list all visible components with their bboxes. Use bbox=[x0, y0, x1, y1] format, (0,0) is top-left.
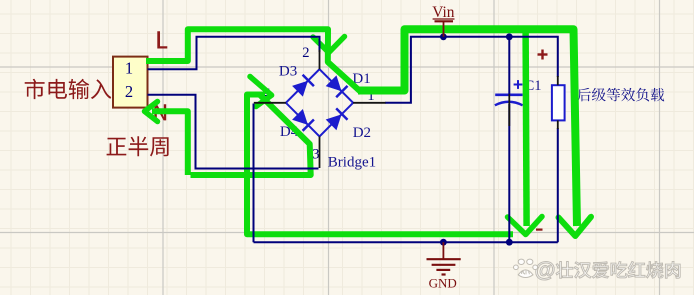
junction dot cap bottom bbox=[506, 239, 513, 246]
minus mark load bbox=[536, 229, 543, 231]
bridge pin 3 stub bbox=[319, 136, 321, 168]
arrow down right branch bbox=[559, 217, 592, 236]
junction dot Vin bbox=[440, 33, 447, 40]
bridge pin 4 stub bbox=[254, 102, 286, 104]
label mains input chinese bbox=[25, 79, 112, 99]
svg-text:GND: GND bbox=[429, 275, 457, 290]
label positive half cycle chinese bbox=[107, 136, 169, 156]
svg-text:@: @ bbox=[535, 258, 556, 282]
bridge pin 2 stub bbox=[319, 50, 321, 69]
load pin stubs bbox=[557, 76, 559, 85]
capacitor body lead bbox=[508, 94, 510, 126]
svg-text:1: 1 bbox=[125, 58, 133, 77]
diode D1 bbox=[325, 75, 348, 98]
wire: capacitor bottom lead bbox=[508, 104, 510, 242]
bridge Bridge1 diamond bbox=[286, 69, 353, 136]
wire highlight Vin net bbox=[358, 29, 577, 226]
diode D3 bbox=[292, 74, 315, 97]
label load chinese (path) bbox=[577, 88, 664, 102]
watermark bbox=[514, 258, 681, 282]
wire: bottom rail bbox=[254, 241, 558, 243]
resistor load bbox=[552, 85, 565, 120]
wire N: pin2 to bridge pin3 bbox=[148, 95, 319, 169]
wire: bridge pin1 to top rail (Vin net) bbox=[385, 37, 558, 103]
label L bbox=[157, 31, 167, 48]
bridge pin 1 stub bbox=[353, 102, 385, 104]
power port Vin bbox=[435, 21, 454, 37]
svg-text:3: 3 bbox=[312, 147, 319, 163]
arrow into bridge pin2 bbox=[313, 37, 345, 53]
svg-text:D2: D2 bbox=[353, 125, 371, 141]
arrow right at pin4 bbox=[250, 77, 272, 107]
plus mark load bbox=[538, 53, 548, 55]
wire L: pin1 to bridge pin2 bbox=[148, 37, 320, 70]
label N bbox=[154, 104, 166, 120]
wire highlight bottom rail to pin4 bbox=[247, 95, 513, 235]
junction dot cap top bbox=[506, 33, 513, 40]
svg-text:2: 2 bbox=[125, 82, 133, 101]
label Vin bbox=[432, 4, 454, 21]
arrow down cap branch bbox=[508, 217, 543, 235]
svg-text:2: 2 bbox=[302, 45, 309, 61]
power port GND bbox=[427, 242, 461, 274]
wire highlight through D4 bbox=[191, 95, 311, 176]
diode D4 bbox=[292, 109, 315, 132]
wire: capacitor top lead bbox=[508, 37, 510, 94]
connector mains input bbox=[113, 57, 148, 108]
wire: load bottom lead to bottom rail bbox=[557, 128, 559, 242]
diode D2 bbox=[325, 108, 348, 131]
wire highlight up to N bbox=[152, 111, 188, 175]
svg-text:D3: D3 bbox=[279, 64, 297, 80]
capacitor C1 bbox=[495, 80, 523, 105]
svg-text:Bridge1: Bridge1 bbox=[328, 154, 376, 170]
watermark paw logo bbox=[514, 259, 538, 277]
junction dot GND bbox=[440, 239, 447, 246]
arrow left at N bbox=[145, 102, 158, 122]
wire highlight cap branch down bbox=[526, 31, 527, 226]
wire highlight L path top bbox=[146, 29, 362, 92]
wire: bridge pin4 down to bottom rail bbox=[253, 104, 255, 243]
